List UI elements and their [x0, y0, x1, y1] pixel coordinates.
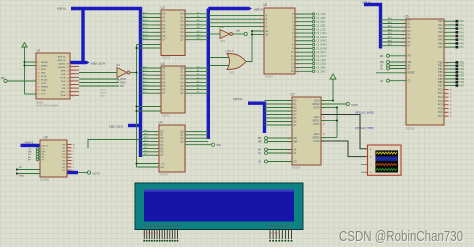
- power symbol above U7 gates: [330, 74, 336, 79]
- wire U7 CLK1 to oscilloscope channel A with probe label: [321, 115, 368, 149]
- svg-text:A3: A3: [197, 76, 199, 79]
- svg-text:PB4: PB4: [438, 76, 443, 78]
- bus CD top horizontal to ADR net label: [208, 7, 249, 10]
- wire MN to U1: [7, 80, 36, 82]
- wire to U1 RESET: [25, 61, 37, 63]
- svg-text:PA1: PA1: [460, 24, 465, 27]
- svg-text:INTR: INTR: [41, 69, 47, 71]
- wire bus CD to U11 input 1: [209, 57, 229, 59]
- oscilloscope channel A trace (yellow): [376, 152, 397, 154]
- svg-text:A19/S6: A19/S6: [58, 66, 66, 69]
- PPI U6 8255 body: [406, 19, 444, 125]
- svg-text:7432: 7432: [229, 71, 235, 74]
- svg-text:CLK: CLK: [41, 93, 46, 95]
- svg-text:CS_LCD1: CS_LCD1: [316, 29, 327, 31]
- svg-text:AD7: AD7: [144, 153, 148, 156]
- svg-text:ADD NL: ADD NL: [233, 97, 243, 101]
- LCD left pin ground dots: [143, 240, 145, 242]
- svg-text:CS_SPK2: CS_SPK2: [316, 71, 327, 73]
- svg-text:WR: WR: [258, 142, 262, 144]
- svg-text:CS_ROM1: CS_ROM1: [316, 45, 328, 47]
- svg-text:CS: CS: [408, 81, 412, 83]
- wire U10 output to terminal: [232, 33, 244, 35]
- svg-text:BHE: BHE: [61, 70, 66, 72]
- bus stub from U5 CAS pins bottom right: [67, 171, 78, 174]
- svg-text:AD11: AD11: [143, 22, 147, 25]
- svg-text:CS_LCD2: CS_LCD2: [316, 33, 327, 35]
- bus CD centre vertical bus: [207, 9, 210, 140]
- terminal WR at U6: [387, 61, 390, 64]
- svg-text:PB0: PB0: [438, 62, 443, 64]
- svg-text:CS: CS: [294, 161, 298, 163]
- wire to U1 CLK: [25, 93, 37, 95]
- U3 D0-D7 input wires from bus AB: [141, 67, 162, 69]
- wire U9 output to latch clock line: [130, 72, 137, 74]
- wire power to GATE0: [332, 79, 334, 101]
- oscilloscope channel C trace (red): [376, 164, 397, 166]
- svg-text:A6: A6: [197, 87, 199, 90]
- U5 INTA wire bottom left: [16, 173, 18, 175]
- terminal CS at U7: [265, 160, 268, 163]
- terminal OUTS right of U5: [87, 171, 90, 174]
- svg-text:AD3: AD3: [143, 76, 147, 79]
- svg-text:VSS VDD VEE RS RW E D0 D1 D2 D: VSS VDD VEE RS RW E D0 D1 D2 D3: [143, 226, 180, 228]
- svg-text:AD[8..15] /N: AD[8..15] /N: [91, 61, 105, 65]
- U5 left terminals: [36, 148, 39, 151]
- junction dot inverter output: [136, 72, 138, 74]
- terminal RD at U7: [265, 137, 268, 140]
- wire U7 OUT2 to oscilloscope channel B: [321, 141, 368, 157]
- svg-text:AD0: AD0: [144, 129, 148, 132]
- svg-text:RD: RD: [121, 86, 125, 88]
- svg-text:RD: RD: [380, 56, 384, 58]
- U6 D0-D7 wires from bus: [381, 19, 407, 21]
- U3 Q0-Q7 output wires to bus CD: [185, 67, 208, 69]
- svg-text:A15: A15: [197, 37, 200, 40]
- svg-text:CSDN @RobinChan730: CSDN @RobinChan730: [339, 229, 463, 245]
- svg-text:AD4: AD4: [143, 80, 147, 83]
- svg-text:AD3: AD3: [144, 139, 148, 142]
- svg-text:AD2: AD2: [144, 136, 148, 139]
- svg-text:CS_ROM2: CS_ROM2: [316, 48, 328, 50]
- svg-text:PA2: PA2: [460, 28, 465, 31]
- svg-text:GATE0: GATE0: [312, 103, 320, 106]
- svg-text:RD: RD: [408, 56, 412, 58]
- svg-text:WR: WR: [294, 141, 298, 143]
- svg-text:GATE1: GATE1: [312, 119, 320, 122]
- svg-text:A12: A12: [197, 26, 200, 29]
- svg-text:CS_KEY2: CS_KEY2: [316, 56, 327, 58]
- svg-text:U8: U8: [263, 3, 267, 7]
- svg-text:LOAD_SEG=0x0986: LOAD_SEG=0x0986: [36, 105, 59, 108]
- svg-text:V(PULA2_TB5P): V(PULA2_TB5P): [355, 127, 374, 130]
- svg-text:CLK: CLK: [161, 164, 166, 166]
- svg-text:PA4: PA4: [438, 35, 443, 38]
- svg-text:U9: U9: [116, 63, 120, 67]
- svg-text:A9: A9: [197, 15, 199, 18]
- wire vertical left of U1: [24, 47, 26, 94]
- U5 right unconnected pin stubs: [67, 144, 72, 146]
- svg-text:OUTS: OUTS: [351, 104, 358, 107]
- svg-text:CS_KEY1: CS_KEY1: [316, 52, 327, 54]
- wire U5 CAS to OUTS terminal: [78, 172, 87, 174]
- svg-text:PA4: PA4: [460, 35, 465, 38]
- svg-text:CS_8253: CS_8253: [316, 22, 326, 24]
- terminal MN at U1 left: [4, 79, 7, 82]
- svg-text:CS_LED1: CS_LED1: [316, 60, 327, 62]
- svg-text:A11: A11: [197, 22, 200, 25]
- svg-text:PB3: PB3: [438, 72, 443, 74]
- svg-text:PC2: PC2: [438, 97, 443, 99]
- svg-text:NMI: NMI: [41, 72, 45, 74]
- wire GATE1 GATE2 link: [321, 107, 337, 109]
- oscilloscope channel D trace (green): [376, 169, 397, 171]
- svg-text:S3 S4: S3 S4: [100, 89, 107, 91]
- svg-text:A2: A2: [197, 73, 199, 76]
- svg-text:WR: WR: [408, 62, 412, 64]
- svg-text:OUT1: OUT1: [313, 124, 320, 126]
- svg-text:AD5: AD5: [143, 84, 147, 87]
- svg-text:CLK2: CLK2: [314, 134, 320, 136]
- svg-text:AD12: AD12: [143, 26, 148, 29]
- power symbol +5V above U1: [22, 43, 27, 48]
- svg-text:ASB NL: ASB NL: [57, 6, 67, 10]
- svg-text:DEN: DEN: [121, 83, 126, 85]
- wire U1 DT/R stub: [79, 78, 119, 80]
- U5 INT wire bottom left: [16, 169, 18, 171]
- bus AB top horizontal + left vertical (main left bus): [71, 9, 141, 158]
- svg-text:PC6: PC6: [438, 112, 443, 114]
- decoder U8 74154 body: [264, 8, 295, 74]
- LCD right pin ground dots: [269, 240, 271, 242]
- svg-text:GND: GND: [41, 90, 46, 92]
- svg-text:HOLD: HOLD: [41, 76, 47, 78]
- svg-text:AD13: AD13: [143, 30, 148, 33]
- svg-text:1 2 3 4 5 6 7 8 9: 1 2 3 4 5 6 7 8 9: [144, 233, 157, 235]
- svg-text:AD7: AD7: [143, 91, 147, 94]
- svg-text:PA2: PA2: [438, 28, 443, 31]
- terminal A0 at U7: [265, 148, 268, 151]
- svg-text:PA0: PA0: [438, 20, 443, 23]
- svg-text:U11:A: U11:A: [226, 49, 234, 53]
- oscilloscope channel D stub wire: [361, 171, 365, 173]
- svg-text:A8: A8: [197, 11, 199, 14]
- svg-text:PB7: PB7: [438, 85, 443, 87]
- OR gate U11:A body: [227, 54, 246, 70]
- svg-text:PB7: PB7: [460, 85, 465, 88]
- svg-text:8259A: 8259A: [41, 178, 50, 182]
- svg-text:U6: U6: [405, 15, 409, 19]
- oscilloscope channel B trace (blue): [376, 157, 398, 161]
- terminal A0 at U6: [387, 64, 390, 67]
- svg-text:PB5: PB5: [438, 79, 443, 81]
- svg-text:CLK0: CLK0: [314, 100, 320, 102]
- U5 left terminal wires: [39, 148, 40, 150]
- interrupt controller U5 8259 body: [40, 140, 67, 177]
- oscilloscope screen: [375, 150, 398, 172]
- svg-text:AD10: AD10: [143, 19, 148, 22]
- svg-text:GATE2: GATE2: [312, 136, 320, 139]
- svg-text:RD: RD: [294, 138, 298, 140]
- wire from U5 area to bus AB: [88, 140, 141, 149]
- latch U4 74273 body: [159, 125, 185, 172]
- svg-text:RESET: RESET: [41, 62, 49, 64]
- svg-text:AD4: AD4: [144, 143, 148, 146]
- wire clock line to U2 CLK MR pins: [137, 44, 162, 46]
- svg-text:DEN: DEN: [61, 81, 66, 83]
- svg-text:A14: A14: [197, 34, 200, 37]
- svg-text:CS_8255: CS_8255: [316, 25, 326, 27]
- svg-text:AD1: AD1: [144, 132, 148, 135]
- terminal OUTS right of U7: [346, 102, 349, 105]
- svg-text:CS: CS: [380, 81, 384, 83]
- svg-text:D[0..7]: D[0..7]: [42, 145, 49, 147]
- svg-text:MR: MR: [161, 167, 165, 169]
- U4 output wires to bus CD: [185, 130, 208, 132]
- bus entry from bus AB into U1 AD[8..15] pin: [71, 9, 84, 63]
- svg-text:CS_LED2: CS_LED2: [316, 64, 327, 66]
- svg-text:PA7: PA7: [438, 46, 443, 49]
- svg-text:ADR NL: ADR NL: [57, 59, 66, 62]
- wire U1 DEN stub: [79, 82, 119, 84]
- wire branch to U8 E2: [252, 34, 264, 36]
- svg-text:AD[0..15] /N: AD[0..15] /N: [109, 125, 123, 129]
- svg-text:PA6: PA6: [438, 42, 443, 45]
- svg-text:U4: U4: [159, 121, 163, 125]
- U4 input wires from bus AB: [141, 130, 160, 132]
- svg-text:INTA: INTA: [19, 175, 24, 178]
- svg-text:AD14: AD14: [143, 34, 148, 37]
- oscilloscope instrument body: [368, 145, 402, 175]
- terminal RD at U6: [387, 54, 390, 57]
- svg-text:OUT0: OUT0: [313, 107, 320, 109]
- svg-text:A4: A4: [197, 80, 199, 83]
- svg-text:MN/MX: MN/MX: [41, 86, 49, 88]
- U6 PC0-PC7 unconnected stubs: [444, 89, 449, 91]
- oscilloscope channel C stub wire: [361, 163, 365, 165]
- svg-text:AD2: AD2: [143, 73, 147, 76]
- LCD module LM044L frame: [135, 183, 303, 230]
- svg-text:WR: WR: [28, 152, 32, 154]
- terminal WR at U7: [265, 140, 268, 143]
- svg-text:CLK1: CLK1: [314, 117, 320, 119]
- terminal A1 at U6: [387, 67, 390, 70]
- svg-text:A10: A10: [197, 19, 200, 22]
- svg-text:AD8 NL: AD8 NL: [58, 55, 66, 58]
- svg-text:PA5: PA5: [460, 39, 465, 42]
- U2 Q0-Q7 output wires to bus CD: [185, 13, 208, 15]
- svg-text:AD0: AD0: [143, 66, 147, 69]
- CPU U1 8086 body: [36, 53, 70, 99]
- svg-text:DT/R: DT/R: [60, 77, 66, 79]
- timer U7 8253 body: [292, 97, 321, 165]
- svg-text:11 12 13 14: 11 12 13 14: [270, 233, 279, 235]
- svg-text:74154: 74154: [265, 75, 274, 79]
- svg-text:PB6: PB6: [438, 82, 443, 84]
- wire OUT0 to terminal OUTS: [321, 103, 346, 105]
- wire clock line to U4 CLK MR pins: [137, 163, 160, 165]
- svg-text:PB2: PB2: [438, 69, 443, 71]
- svg-text:ALE: ALE: [61, 73, 66, 76]
- terminal wr0 at U10 output: [244, 32, 247, 35]
- U8 A B C D input wires from bus CD: [209, 15, 264, 17]
- svg-text:A16/S3: A16/S3: [58, 62, 66, 65]
- terminal A1 at U7: [265, 152, 268, 155]
- svg-text:A1: A1: [197, 69, 199, 72]
- svg-text:8253A: 8253A: [292, 165, 301, 169]
- LCD right pins: [269, 230, 271, 240]
- wire U4 WR output to terminal: [185, 144, 211, 146]
- svg-text:HLDA: HLDA: [41, 78, 47, 81]
- svg-text:M/IO: M/IO: [61, 91, 66, 93]
- svg-text:74273: 74273: [162, 56, 171, 60]
- svg-text:PA3: PA3: [460, 31, 465, 34]
- svg-text:AD9: AD9: [143, 15, 147, 18]
- svg-text:AD5: AD5: [144, 146, 148, 149]
- latch clock vertical wire: [136, 45, 138, 168]
- svg-text:ADR /N: ADR /N: [254, 8, 263, 12]
- wire U11 output to U8 enable pins: [246, 31, 264, 62]
- bus entry label AD[0..15] on bus AB: [128, 124, 141, 127]
- U6 PB0-PB7 wires and tap markers: [444, 61, 456, 63]
- svg-text:AD6: AD6: [143, 87, 147, 90]
- svg-text:OUTS: OUTS: [93, 172, 100, 175]
- bus stub right of U1 with AD[8..15] label: [83, 61, 87, 64]
- svg-text:V(PULA1_BA0E): V(PULA1_BA0E): [355, 111, 374, 114]
- svg-text:PA3: PA3: [438, 31, 443, 34]
- wire U1 ALE to inverter U9: [79, 72, 117, 74]
- svg-text:PA5: PA5: [438, 39, 443, 42]
- svg-text:WR: WR: [42, 151, 46, 153]
- svg-text:PC3: PC3: [438, 101, 443, 103]
- wire U1 RD stub: [79, 85, 119, 87]
- inverter U10 (NOT gate): [220, 30, 230, 39]
- terminal CS at U6: [387, 79, 390, 82]
- svg-text:CS_8259: CS_8259: [316, 18, 326, 20]
- svg-text:CS_SPK1: CS_SPK1: [316, 67, 327, 69]
- svg-text:U2: U2: [161, 6, 165, 10]
- svg-text:U5: U5: [44, 135, 48, 139]
- svg-text:PA7: PA7: [460, 46, 465, 49]
- latch U2 74273 body: [161, 10, 185, 56]
- svg-text:QS0: QS0: [100, 95, 105, 97]
- svg-text:S5 S6: S5 S6: [100, 92, 107, 94]
- svg-text:AD6: AD6: [144, 149, 148, 152]
- svg-text:PC1: PC1: [438, 93, 443, 95]
- svg-text:8255A: 8255A: [406, 126, 415, 130]
- wire RESET to U6: [376, 72, 406, 74]
- svg-text:NOT: NOT: [220, 40, 226, 43]
- U7 D0-D7 wires from bus: [265, 100, 293, 102]
- LCD left pins: [143, 230, 145, 240]
- svg-text:CS: CS: [258, 162, 262, 164]
- svg-text:CS_RAM2: CS_RAM2: [316, 40, 328, 43]
- U8 output terminals: [312, 13, 314, 15]
- svg-text:PB1: PB1: [438, 66, 443, 68]
- wire to U1 READY: [25, 65, 37, 67]
- svg-text:PA6: PA6: [460, 42, 465, 45]
- svg-text:AD8: AD8: [143, 11, 147, 14]
- svg-text:RESET: RESET: [408, 73, 416, 75]
- latch U3 74273 body: [161, 66, 185, 113]
- svg-text:PC0: PC0: [438, 89, 443, 91]
- svg-text:PC7: PC7: [438, 116, 443, 118]
- U8 output wires Y0-Y15: [295, 13, 312, 15]
- svg-text:RD: RD: [258, 138, 262, 140]
- svg-text:INTA: INTA: [61, 94, 66, 97]
- svg-text:PA1: PA1: [438, 24, 443, 27]
- svg-text:READY: READY: [41, 64, 49, 67]
- svg-text:OUT2: OUT2: [313, 141, 320, 143]
- svg-text:MN: MN: [1, 77, 5, 80]
- svg-text:CS_RAM1: CS_RAM1: [316, 36, 328, 39]
- svg-text:WR: WR: [62, 88, 66, 90]
- terminal WR right of U4: [211, 143, 214, 146]
- junction dots on U1 left wire: [24, 61, 26, 63]
- U6 PA0-PA7 wires and tap markers: [444, 20, 456, 22]
- wire bus CD to U11 input 2: [209, 65, 229, 67]
- svg-text:PC5: PC5: [438, 108, 443, 110]
- wire clock line to U3 CLK MR pins: [137, 106, 162, 108]
- svg-text:wr0: wr0: [236, 29, 241, 32]
- svg-text:A5: A5: [197, 84, 199, 87]
- wire bus CD to U10 input: [209, 33, 220, 35]
- svg-text:A7: A7: [197, 91, 199, 94]
- svg-text:WR: WR: [380, 62, 384, 64]
- svg-text:74273: 74273: [160, 172, 169, 176]
- svg-text:U7: U7: [291, 93, 295, 97]
- svg-text:AD15: AD15: [143, 37, 148, 40]
- svg-text:WR: WR: [217, 144, 221, 147]
- svg-text:PA0: PA0: [460, 20, 465, 23]
- svg-text:A13: A13: [197, 30, 200, 33]
- svg-text:74273: 74273: [162, 113, 171, 117]
- U2 D0-D7 input wires from bus AB: [141, 13, 162, 15]
- svg-text:PC4: PC4: [438, 105, 443, 107]
- svg-text:TEST: TEST: [41, 83, 47, 85]
- svg-text:D4 D5 D6 D7 E2 RS2: D4 D5 D6 D7 E2 RS2: [270, 226, 291, 228]
- svg-text:U3: U3: [161, 62, 165, 66]
- LCD screen: [144, 190, 294, 222]
- svg-text:A0: A0: [197, 66, 199, 69]
- U1 right pin stubs and numbers: [70, 66, 79, 68]
- svg-text:CS_273A: CS_273A: [316, 13, 326, 16]
- svg-text:RD: RD: [62, 84, 66, 86]
- svg-text:U1: U1: [37, 49, 41, 53]
- svg-text:NOT: NOT: [117, 79, 123, 82]
- inverter U9 (NOT gate) near U1: [117, 68, 127, 78]
- svg-text:AD1: AD1: [143, 69, 147, 72]
